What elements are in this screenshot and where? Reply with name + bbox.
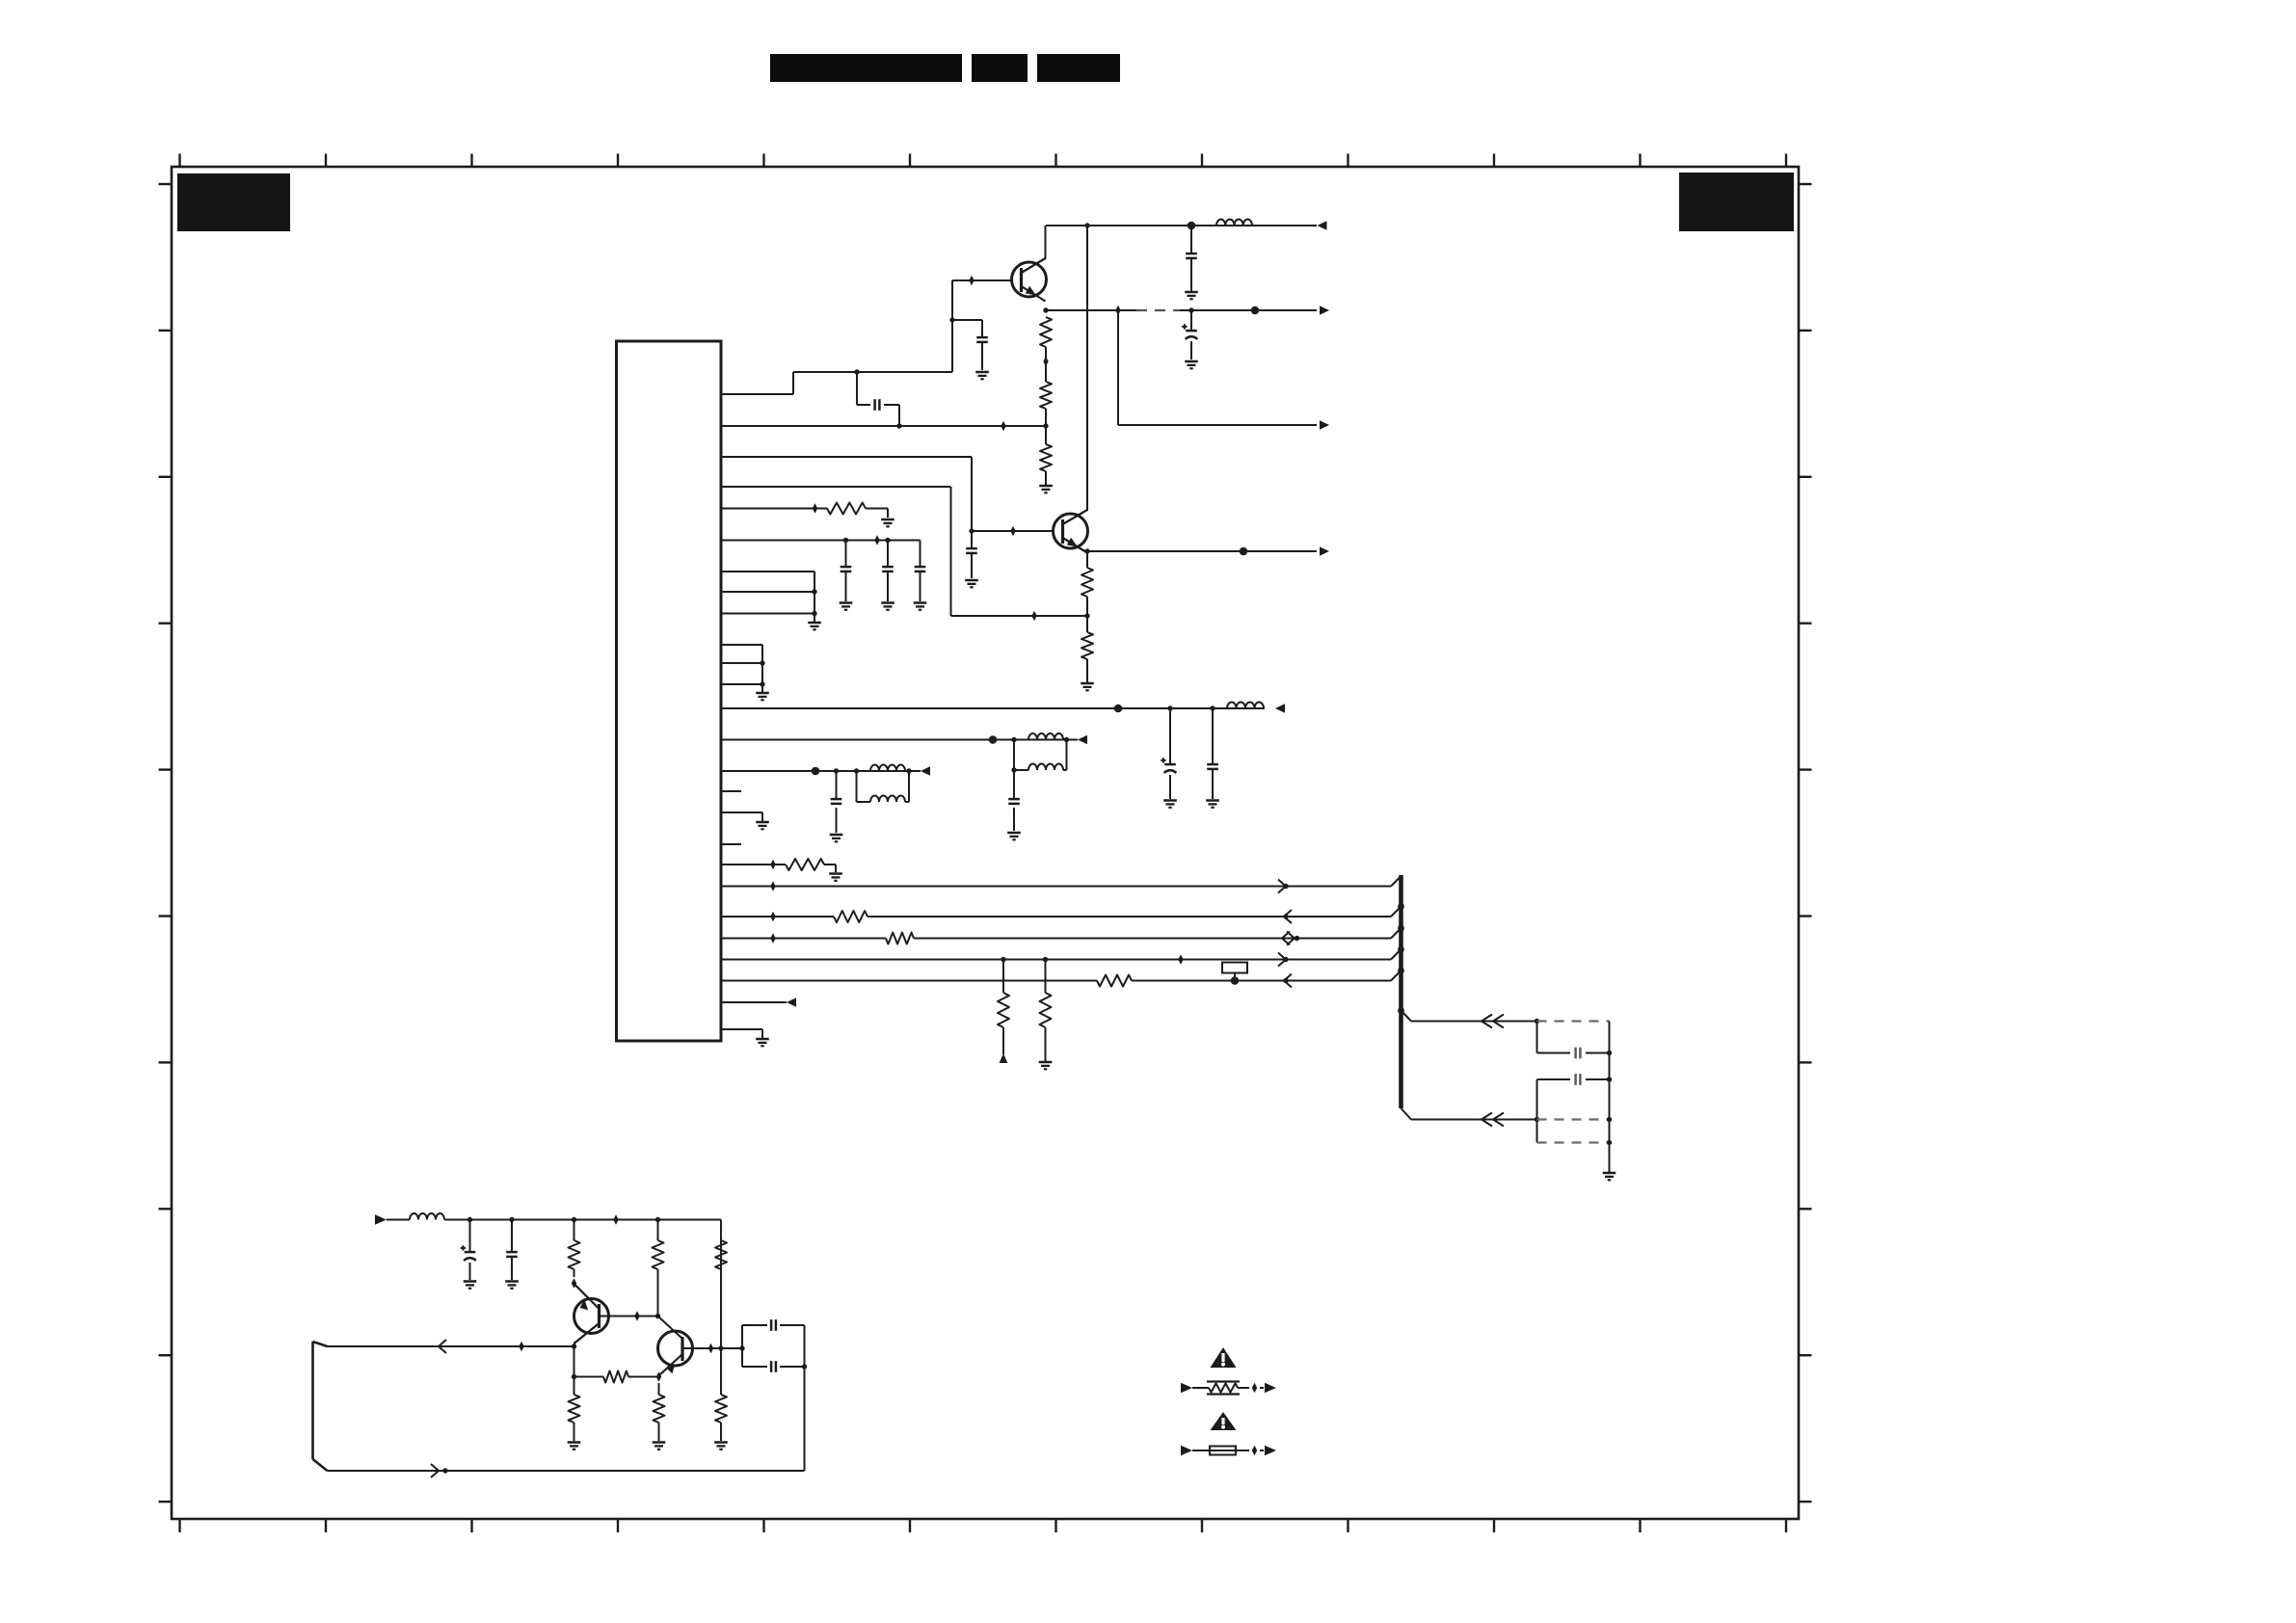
ground below C9 (1163, 799, 1177, 802)
ground pin y1068 (756, 1038, 769, 1041)
wire F cap drop (836, 771, 838, 833)
ground below C6 (840, 601, 853, 604)
wire A: Q1 collector output rail y234 (1046, 225, 1317, 226)
ground below C5 (965, 579, 978, 582)
wire E: IC rail y767 (721, 739, 1078, 741)
node pin tie (845,614) (812, 589, 816, 594)
wire Q2 base bypass drop (971, 531, 973, 578)
wire IC pin y527 RC to ground (721, 509, 888, 519)
connector diamond (595.5,1331.5) (572, 1278, 576, 1289)
arrow y441 rail off-page right (1320, 420, 1329, 430)
ground pin group x845 (808, 622, 821, 625)
wire M: pin y1040 with back-arrow (721, 1001, 787, 1003)
capacitor C11 (1008, 798, 1020, 801)
inductor L4 (wire E loop) (1028, 764, 1063, 771)
wire F parallel loop (857, 771, 910, 802)
node wire D (1214,735) (1167, 705, 1172, 710)
wire Q3 base line (600, 1316, 658, 1317)
arrow into wire F (pointing left) (921, 766, 930, 776)
ground below R18 (653, 1441, 666, 1444)
wire R14 drop (657, 1220, 659, 1317)
ground below C7 (881, 601, 894, 604)
wire Q3 collector to node (574, 1342, 575, 1346)
wire R5 stubs (1086, 616, 1088, 682)
wire cap drop x954 (920, 572, 921, 601)
wire R13 drop (574, 1220, 575, 1278)
node upper cable (1594.5,1059.5) (1535, 1019, 1539, 1024)
node junction cap branch on wire C (x933) (896, 423, 901, 428)
wire IC pin y1068 to ground (721, 1029, 762, 1038)
wire IC pin y560 decoupling rail (721, 541, 921, 567)
resistor R9 (886, 933, 914, 945)
node wire B (big dot 1302,322) (1251, 306, 1260, 315)
connector diamond (683.5,1428.5) (656, 1371, 661, 1382)
node lower shield (1669.5,1185.5) (1607, 1140, 1612, 1145)
legend fusible resistor row (1181, 1382, 1276, 1395)
wire cap loop down to return (804, 1367, 806, 1471)
connector diamond on Q2 base wire (1010, 526, 1015, 537)
resistor R15 (715, 1240, 727, 1269)
resistor R6 (827, 503, 866, 515)
legend fuse row (1181, 1446, 1276, 1456)
arrow y572 off-page right (1320, 546, 1329, 556)
ground below C15 (464, 1280, 477, 1283)
resistor R4 (Q2 emitter upper) (1081, 568, 1093, 597)
wire lower cable y1161.5 (1402, 1108, 1537, 1120)
node wire D (1258,735) (1210, 705, 1215, 710)
node shield (1669.5,1120) (1607, 1077, 1612, 1081)
node wire L (1334,1017.5) (1283, 978, 1288, 983)
ground below R11 (1039, 1061, 1053, 1064)
wire Q1 base line y291 (952, 280, 1013, 320)
ground below C3 (975, 371, 989, 374)
chevron arrow right on wire H (1278, 880, 1286, 893)
chevron pair on wire J (1282, 932, 1290, 945)
legend warning triangle (upper) (1211, 1347, 1237, 1368)
capacitor C8 (915, 566, 926, 569)
node rail (487.5,1265.5) (467, 1217, 472, 1222)
IC U1 (main processor, labels redacted) (617, 341, 722, 1041)
wire C10 drop (1212, 708, 1214, 799)
capacitor C13 (shield) (1574, 1048, 1577, 1059)
capacitor C9 (electrolytic) (1164, 763, 1176, 766)
wire lower shield cap path (1537, 1079, 1610, 1143)
connector diamond (802,973.5) (770, 933, 775, 944)
node chain/wire-C junction (1085,442) (1043, 423, 1048, 428)
wire from B-diamond down to y441 rail (1118, 310, 1317, 425)
ground below C11 (1007, 832, 1021, 835)
wire R1-R2 link (1045, 347, 1047, 382)
wire R3 stubs (1045, 426, 1047, 485)
wire E cap drop (1013, 770, 1015, 831)
wire Q3 emitter diagonal (574, 1285, 576, 1286)
arrow on wire M (pointing left) (787, 998, 796, 1007)
wire Q4 collector diagonal (658, 1317, 683, 1340)
node wire E (big dot 1030,767) (989, 735, 998, 744)
resistor R13 (569, 1240, 580, 1269)
ground below R6 (881, 519, 894, 521)
transistor Q2 (1054, 510, 1088, 553)
wire cap drop x877 (845, 541, 847, 602)
node wire F (943,800) (906, 768, 911, 773)
wire H: bus line y919.5 (721, 886, 1391, 888)
wire output line y1397 (328, 1345, 574, 1347)
wire upper shield loop (1537, 1022, 1610, 1053)
wire Q3 collector vertical (574, 1346, 575, 1377)
ground below R19 (714, 1441, 728, 1444)
ground cable shield (1603, 1172, 1616, 1175)
arrow wire B off-page right (1320, 306, 1329, 315)
resistor R12 on wire L (1097, 975, 1132, 987)
wire D: IC supply rail y735 (721, 707, 1265, 709)
capacitor C15 (electrolytic) (465, 1251, 476, 1254)
wire Q1 base vertical riser x988 (951, 320, 953, 372)
arrow up-terminal below R10 (1000, 1053, 1008, 1063)
node shield (1669.5,1092.5) (1607, 1051, 1612, 1055)
resistor R18 (654, 1395, 665, 1423)
transistor Q1 (1012, 258, 1047, 302)
wire branch x889 down to series cap (857, 372, 899, 426)
wire R18 drop (658, 1383, 660, 1441)
wire lower cable dashed shield (1537, 1118, 1610, 1120)
ground below R7 (829, 872, 842, 875)
ground below C12 (830, 834, 843, 837)
ground below R5 (1081, 682, 1094, 685)
legend warning triangle (lower) (1211, 1412, 1237, 1430)
ground below R3 (1039, 485, 1053, 488)
wire I: bus line y951 (721, 916, 1391, 918)
inductor L2 on wire D (1227, 703, 1264, 709)
node wire J (1345.5,973.5) (1295, 936, 1299, 941)
inductor L3 on wire E (1028, 733, 1063, 740)
node wire F cap tap (867.5,800) (834, 768, 839, 773)
node on Q1 base feed (x889) (854, 369, 859, 374)
wire R2 to node (1045, 409, 1047, 426)
wire I bus diagonal (1391, 907, 1402, 918)
wire Q4 emitter diagonal (659, 1375, 660, 1377)
node lower shield (1669.5,1161.5) (1607, 1117, 1612, 1122)
connector diamond (1085,375) (1043, 357, 1048, 367)
wire shield vertical link (1609, 1053, 1611, 1080)
frame bottom tick marks (180, 1519, 1787, 1532)
connector diamond (1225,995.5) (1178, 954, 1183, 965)
wire C16 drop (511, 1220, 513, 1281)
wire shield ground drop (1609, 1079, 1611, 1172)
capacitor C5 (Q2 base bypass) (966, 547, 977, 550)
wire cap drop x921 (887, 541, 889, 602)
capacitor C1 (1186, 253, 1197, 255)
node pin tie (791,688) (760, 660, 764, 665)
wire long vertical x1128 (wire A to Q2 collector) (1086, 226, 1088, 511)
frame top tick marks (180, 154, 1787, 168)
node wire I (1334,951) (1283, 914, 1288, 918)
wire E parallel loop (1014, 740, 1067, 771)
wire upper cable dashed shield (1537, 1020, 1610, 1022)
connector diamond (802,951) (770, 912, 775, 922)
node wire E loop (1052,799) (1011, 767, 1016, 772)
node decoupling rail (877.5,560.5) (843, 538, 848, 543)
ground pin group x791 (756, 692, 769, 695)
wire C: IC pin y442 to chain (721, 425, 1046, 427)
wire C15 drop (469, 1220, 471, 1281)
corner redaction block top-left (177, 173, 290, 231)
frame border (172, 167, 1799, 1519)
title redaction block 3 (1037, 54, 1120, 82)
capacitor C6 (841, 566, 852, 569)
cable bracket left (313, 1342, 328, 1471)
node Q2 emitter junction (1128,572) (1084, 548, 1089, 553)
title redaction block 1 (770, 54, 962, 82)
node bus tap upper cable (1398, 1007, 1404, 1014)
wire R15 drop (720, 1240, 722, 1348)
resistor R14 (653, 1240, 664, 1269)
node lower cable (1594.5,1161.5) (1535, 1117, 1539, 1122)
wire upper cable y1059.5 (1402, 1011, 1537, 1022)
node rail (531,1265.5) (509, 1217, 514, 1222)
node return line (462,1526) (442, 1468, 447, 1473)
arrow into wire E (pointing left) (1078, 735, 1087, 745)
wire Q4 base line (682, 1347, 742, 1349)
wire B dashed section (1136, 309, 1180, 311)
node Q2 base junction (1008,551) (969, 528, 974, 533)
ground below C16 (505, 1280, 519, 1283)
capacitor C14 (shield) (1574, 1074, 1577, 1085)
resistor R19 (715, 1395, 727, 1423)
wire R4 stubs (1086, 551, 1088, 616)
node Q3 collector junction (595.5,1397) (572, 1344, 576, 1348)
node wire D (big dot 1160,735) (1114, 705, 1123, 713)
ground pin y843 (756, 821, 769, 824)
node Q1 base network junction (988,332) (949, 317, 954, 322)
wire IC pin to Q1 base network (y409 step up) (721, 372, 952, 394)
wire H bus diagonal (1391, 876, 1402, 887)
capacitor C3 (Q1 base bypass) (976, 336, 988, 339)
node wire E (1106.5,767) (1064, 737, 1069, 742)
capacitor C12 (831, 798, 842, 801)
chevron arrow left on output line (439, 1340, 446, 1353)
arrow into wire A (off-page, pointing left) (1318, 221, 1327, 230)
arrow into wire D (pointing left) (1275, 704, 1285, 713)
node bus join L (1398, 968, 1404, 974)
wire L: bus line y1017.5 (721, 980, 1391, 982)
node wire F loop tap (888.5,800) (854, 768, 859, 773)
node Q2 emitter chain junction (1128,639) (1084, 613, 1089, 618)
wire feedback cap loop (742, 1325, 805, 1367)
node wire H (1334,919.5) (1283, 884, 1288, 889)
double chevron on lower cable (1482, 1113, 1492, 1127)
wire IC pins y593-y636 tie (721, 572, 814, 622)
capacitor C16 (506, 1251, 518, 1254)
node feedback tap (770,1399) (739, 1345, 744, 1350)
connector diamond (737.5,1399) (708, 1344, 713, 1354)
resistor R8 (834, 911, 868, 922)
wire K bus diagonal (1391, 949, 1402, 960)
wire Q1 collector riser (1045, 226, 1047, 259)
node wire A tap (big dot 1236,234) (1188, 222, 1196, 230)
connector diamond (802,897) (770, 860, 775, 870)
resistor R1 (Q1 emitter) (1040, 317, 1052, 347)
capacitor C7 (882, 566, 894, 569)
ground below C1 (1185, 291, 1198, 294)
node Q4 base on R15 drop (748,1399) (718, 1345, 723, 1350)
wire G: pin y897 RC to ground (721, 865, 836, 872)
arrow feed into supply rail (pointing right) (375, 1214, 387, 1224)
double chevron on upper cable (1482, 1015, 1492, 1028)
wire R11 drop (1045, 960, 1047, 1062)
node pin tie (845,636.5) (812, 611, 816, 616)
resistor R10 (998, 993, 1009, 1027)
wire B: Q1 emitter rail y322 (1046, 309, 1317, 311)
wire IC pin y474 to Q2 base (721, 457, 972, 531)
resistor R5 (Q2 emitter lower) (1081, 632, 1093, 659)
node decoupling rail (921,560.5) (885, 538, 890, 543)
node wire K (1334,995.5) (1283, 957, 1288, 962)
wire lower dashed return (1537, 1141, 1610, 1143)
inductor L1 on wire A (1216, 219, 1252, 226)
resistor R2 (1040, 382, 1052, 409)
wire J bus diagonal (1391, 928, 1402, 939)
wire L bus diagonal (1391, 971, 1402, 981)
resistor R11 (1040, 993, 1052, 1027)
node wire B (1236,322) (1188, 307, 1193, 312)
chevron arrow left on wire I (1284, 910, 1292, 923)
component X1 (crystal/jumper box on wire K) (1222, 963, 1247, 973)
node wire K (1041,995.5) (1001, 957, 1005, 962)
wire F: IC rail y800 (721, 770, 921, 772)
inductor L7 on supply rail (410, 1213, 444, 1219)
corner redaction block top-right (1679, 173, 1794, 231)
wire IC pin y505 to Q2 emitter chain (721, 487, 1087, 616)
capacitor C4 (electrolytic) (1186, 330, 1197, 333)
node bus join K (1398, 946, 1404, 953)
wire cross-couple resistor run (574, 1376, 659, 1378)
resistor R7 (786, 859, 824, 870)
connector diamond (802,919.5) (770, 881, 775, 891)
ground below C10 (1206, 799, 1219, 802)
chevron arrow left on wire L (1284, 974, 1292, 988)
node Q1 emitter junction (1085,322) (1043, 307, 1048, 312)
wire Q2 base line (972, 530, 1055, 532)
wire IC pins y669-y710 tie (721, 645, 762, 692)
connector diamond on Q1 base wire (969, 276, 974, 286)
connector diamond (910,560.5) (874, 535, 879, 545)
node X1 tap on wire L (big dot 1281,1017.5) (1231, 976, 1240, 985)
connector diamond (661,1365.5) (634, 1311, 639, 1321)
connector diamond (845.5,527.5) (813, 503, 817, 514)
wire J: bus line y973.5 (721, 938, 1391, 940)
node wire K (1084.5,995.5) (1043, 957, 1048, 962)
wire R10 drop (1002, 960, 1004, 1055)
inductor L5 on wire F (870, 765, 905, 772)
capacitor C2 (series, horizontal) (873, 399, 876, 411)
wire junction to base-bypass cap (952, 320, 982, 370)
ground below C4 (1185, 360, 1198, 363)
capacitor C18 (feedback lower) (770, 1361, 773, 1372)
node wire E loop tap (1052,767) (1011, 737, 1016, 742)
wire C1 drop from wire A (1190, 226, 1192, 291)
chevron arrow right on return line (431, 1464, 439, 1477)
transistor Q3 (574, 1285, 609, 1344)
chevron arrow right on wire K (1278, 953, 1286, 967)
node rail (682.5,1265.5) (655, 1217, 660, 1222)
ground below R17 (568, 1441, 581, 1444)
wire return line y1526 (328, 1470, 805, 1472)
node Q3 base junction (682.5,1365.5) (655, 1314, 660, 1318)
frame left tick marks (159, 184, 173, 1502)
node rail (595.5,1265.5) (572, 1217, 576, 1222)
wire K: bus line y995.5 (721, 959, 1391, 961)
wire IC pin stub y876 (721, 843, 741, 845)
wire Q2 emitter rail y572 (1087, 550, 1317, 552)
ground below C8 (914, 601, 927, 604)
connector diamond on wire C (1041,442) (1001, 421, 1005, 432)
resistor R17 (569, 1395, 580, 1423)
wire supply rail y1265.5 (387, 1220, 721, 1241)
connector diamond (541,1397) (519, 1342, 523, 1352)
capacitor C10 (1207, 763, 1218, 766)
node cap loop (834.5,1418) (802, 1364, 807, 1369)
node wire F (big dot 846,800) (812, 767, 820, 776)
transistor Q4 (658, 1331, 693, 1375)
node bus join J (1398, 925, 1404, 932)
wire R17 drop (574, 1377, 575, 1442)
wire IC pin stub y821 (721, 790, 741, 792)
frame right tick marks (1799, 184, 1812, 1502)
capacitor C17 (feedback upper) (770, 1319, 773, 1331)
wire C9 drop (1169, 708, 1171, 799)
connector diamond (1073,639) (1031, 611, 1036, 622)
resistor R3 (1040, 444, 1052, 471)
connector diamond (639,1265.5) (613, 1214, 618, 1225)
node wire y572 (big dot 1290,572) (1240, 547, 1248, 556)
wire R19 drop (720, 1348, 722, 1441)
node bus join I (1398, 903, 1404, 910)
connector diamond on wire B (1160,322) (1115, 306, 1120, 316)
inductor L6 (wire F loop) (870, 796, 905, 803)
wire IC pin y843 to ground (721, 812, 762, 821)
wire electrolytic drop from wire B (1190, 310, 1192, 359)
bus heavy vertical line x1453.5 (1399, 875, 1403, 1108)
title redaction block 2 (972, 54, 1028, 82)
node wire A / vertical bus junction (1128,234) (1084, 223, 1089, 227)
node (595.5,1428.5) (572, 1374, 576, 1379)
node pin tie (791,710) (760, 681, 764, 686)
resistor R16 (cross-couple) (603, 1371, 628, 1383)
